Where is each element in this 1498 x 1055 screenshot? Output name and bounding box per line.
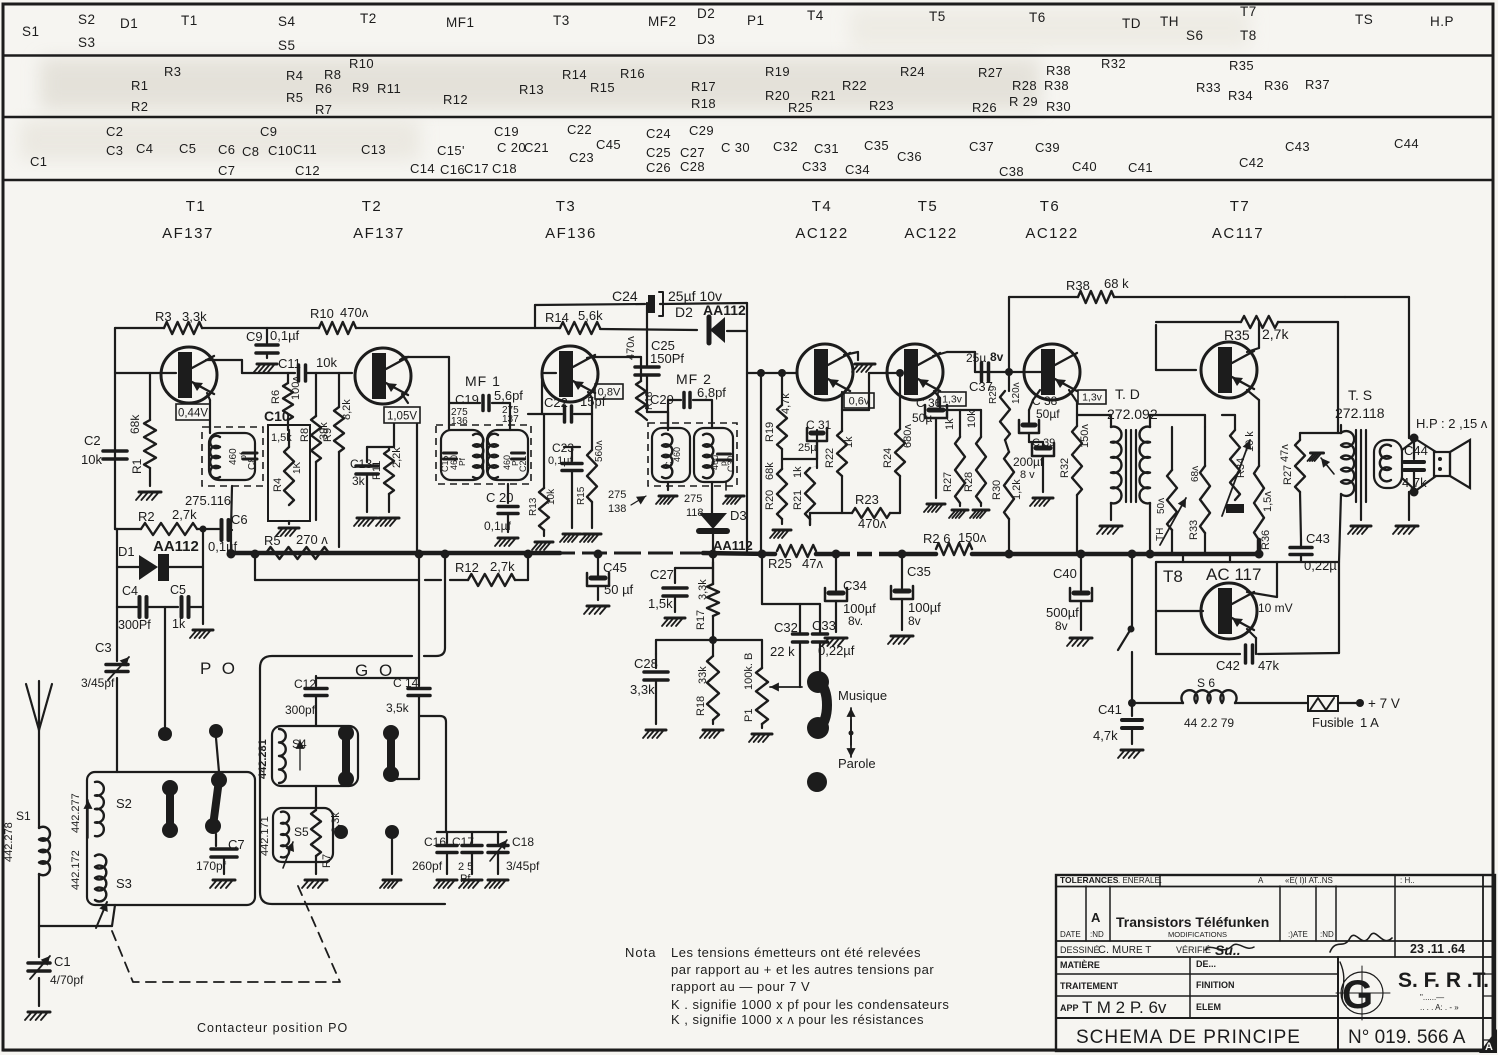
svg-text:R35: R35 xyxy=(1224,327,1250,343)
capacitor C28 3,3k xyxy=(630,654,668,738)
svg-text:T3: T3 xyxy=(553,13,570,28)
svg-text:0,6v: 0,6v xyxy=(849,396,870,408)
svg-text:23 .11 .64: 23 .11 .64 xyxy=(1410,942,1465,956)
title block frame xyxy=(1056,875,1495,1051)
svg-text:R3: R3 xyxy=(155,309,172,324)
wire MF2 secondary bottom xyxy=(712,482,744,516)
switch contact GO-1 xyxy=(338,725,354,787)
svg-text:C35: C35 xyxy=(907,564,931,579)
ground R7 xyxy=(302,880,327,888)
svg-text:H.P: H.P xyxy=(1430,14,1454,29)
svg-text:1,2k: 1,2k xyxy=(1011,479,1023,500)
svg-text:A: A xyxy=(1258,876,1264,885)
wire GO C14 feed xyxy=(418,556,420,686)
svg-text:560ʌ: 560ʌ xyxy=(594,440,605,462)
svg-text:R35: R35 xyxy=(1229,58,1254,73)
svg-text:C19: C19 xyxy=(455,392,479,407)
resistor R14 xyxy=(545,308,603,334)
resistor R21 1k xyxy=(792,466,817,525)
svg-text:C27: C27 xyxy=(680,145,705,160)
svg-text:FINITION: FINITION xyxy=(1196,980,1235,990)
svg-text:G: G xyxy=(1342,973,1373,1017)
resistor R28 10k xyxy=(963,410,989,518)
capacitor C35 100µf 8v xyxy=(888,554,941,644)
svg-text:T6: T6 xyxy=(1029,10,1046,25)
svg-text:R28: R28 xyxy=(963,472,975,492)
svg-text:C5: C5 xyxy=(179,141,196,156)
svg-text:TS: TS xyxy=(1355,12,1373,27)
svg-text:C32: C32 xyxy=(773,139,798,154)
svg-text:R19: R19 xyxy=(765,64,790,79)
svg-text:AF136: AF136 xyxy=(545,225,597,242)
svg-text:0,44V: 0,44V xyxy=(178,408,208,420)
switch contact PO-2 (to C7) xyxy=(205,772,227,834)
svg-text:C1: C1 xyxy=(54,954,71,969)
svg-text:442.278: 442.278 xyxy=(3,822,15,862)
svg-text:S3: S3 xyxy=(116,876,132,891)
svg-text:"......—: "......— xyxy=(1420,993,1444,1002)
svg-text:S1: S1 xyxy=(22,24,40,39)
resistor R7 3,3k xyxy=(311,786,342,874)
svg-text:T2: T2 xyxy=(360,11,377,26)
svg-text:10k: 10k xyxy=(966,410,978,428)
svg-text:5,6pf: 5,6pf xyxy=(494,388,523,403)
loudspeaker H.P 2,15 xyxy=(1416,416,1488,488)
svg-text:H.P : 2 ,15 ʌ: H.P : 2 ,15 ʌ xyxy=(1416,416,1488,431)
svg-text:R2: R2 xyxy=(131,99,148,114)
svg-text:0,1µf: 0,1µf xyxy=(484,519,512,533)
svg-text:470ʌ: 470ʌ xyxy=(625,336,637,360)
svg-text:T5: T5 xyxy=(918,198,939,215)
nota text block xyxy=(625,945,949,1027)
coil L1 xyxy=(209,433,255,480)
svg-text:TD: TD xyxy=(1122,16,1141,31)
svg-text:150ʌ: 150ʌ xyxy=(958,530,987,545)
svg-text:1,5ʌ: 1,5ʌ xyxy=(1262,491,1274,512)
wire T4 base column xyxy=(747,369,797,553)
svg-text:68k: 68k xyxy=(128,414,142,434)
svg-text:T2: T2 xyxy=(362,198,383,215)
resistor R22 1k xyxy=(824,429,855,513)
svg-text:T1: T1 xyxy=(181,13,198,28)
svg-text:2,2k: 2,2k xyxy=(391,447,403,468)
svg-text:T5: T5 xyxy=(929,9,946,24)
wire volume feed xyxy=(675,554,713,640)
capacitor C7 170pf xyxy=(196,834,245,888)
svg-text:C23: C23 xyxy=(552,441,574,455)
switch contact PO-1 xyxy=(162,780,178,838)
svg-text:150Pf: 150Pf xyxy=(650,351,684,366)
svg-text:68k: 68k xyxy=(764,462,776,480)
svg-text:10k: 10k xyxy=(546,488,557,505)
svg-text:1k: 1k xyxy=(843,436,855,448)
svg-text:275: 275 xyxy=(684,493,702,505)
title block texts xyxy=(1060,875,1466,1048)
svg-text:C22: C22 xyxy=(567,122,592,137)
wire C16 row feed tap xyxy=(420,716,446,832)
ground speaker line xyxy=(1393,526,1418,534)
header row: resistor locations xyxy=(131,56,1330,117)
svg-text:S5: S5 xyxy=(278,38,296,53)
svg-text:C33: C33 xyxy=(802,159,827,174)
coil S3 442.172 xyxy=(70,850,132,901)
svg-text:T M 2 P. 6v: T M 2 P. 6v xyxy=(1082,998,1167,1017)
resistor R12 2,7k xyxy=(455,559,515,586)
wire T3 base xyxy=(528,373,556,414)
capacitor C9 0,1µf xyxy=(246,328,300,358)
svg-text:4,7k: 4,7k xyxy=(780,393,792,414)
svg-text:R7: R7 xyxy=(321,854,333,868)
wire T2 emitter column xyxy=(367,394,417,553)
svg-text:AF137: AF137 xyxy=(353,225,405,242)
svg-text:272.118: 272.118 xyxy=(1335,405,1385,421)
wire C16/C17/C18 row xyxy=(437,832,506,843)
svg-text:1k: 1k xyxy=(172,617,186,631)
svg-text:C26: C26 xyxy=(646,160,671,175)
svg-text:S2: S2 xyxy=(78,12,96,27)
MF1 transformer dashed box xyxy=(436,425,531,484)
svg-text:T1: T1 xyxy=(186,198,207,215)
revision triangle A xyxy=(1479,1029,1497,1053)
svg-text:C17: C17 xyxy=(452,835,474,849)
capacitor C11 (10k) xyxy=(278,355,352,381)
resistor R38 68k xyxy=(1009,276,1345,303)
labels T8 AC117 xyxy=(1163,565,1261,586)
wire R27/R28 top xyxy=(940,409,981,411)
svg-text:68ʌ: 68ʌ xyxy=(1190,466,1201,482)
resistor R18 33k xyxy=(695,640,723,738)
svg-text:DE...: DE... xyxy=(1196,959,1216,969)
svg-text:R24: R24 xyxy=(882,448,894,468)
svg-text:C11: C11 xyxy=(278,356,301,371)
svg-text:R1: R1 xyxy=(131,78,148,93)
svg-text:22 k: 22 k xyxy=(770,644,795,659)
svg-text:680ʌ: 680ʌ xyxy=(902,424,914,448)
wire T4 emitter to ground xyxy=(844,352,875,372)
svg-text:1,3v: 1,3v xyxy=(1082,392,1103,404)
svg-text:R2: R2 xyxy=(138,509,155,524)
ground TS core xyxy=(1348,502,1371,534)
capacitor C31 25µ xyxy=(782,418,832,466)
svg-text:C29: C29 xyxy=(650,392,674,407)
svg-text::ND: :ND xyxy=(1090,930,1104,939)
svg-text:C24: C24 xyxy=(646,126,671,141)
svg-text:R25: R25 xyxy=(788,100,813,115)
output transformer T.S 272.118 xyxy=(1335,387,1385,421)
resistor R16 470 xyxy=(625,336,655,420)
svg-text:C25: C25 xyxy=(646,145,671,160)
svg-text:R36: R36 xyxy=(1260,530,1272,550)
svg-text:47k: 47k xyxy=(1258,658,1279,673)
svg-text:par rapport au + et les: par rapport au + et les autres tensions … xyxy=(671,962,934,977)
svg-text:2 5: 2 5 xyxy=(458,861,473,873)
svg-text:MF2: MF2 xyxy=(648,14,677,29)
svg-text:A: A xyxy=(1485,1041,1493,1053)
resistor R20 68k xyxy=(764,449,791,538)
svg-text:C 31: C 31 xyxy=(806,418,832,432)
svg-text:R18: R18 xyxy=(695,696,707,716)
svg-text:D2: D2 xyxy=(675,304,693,320)
svg-text:C7: C7 xyxy=(228,837,245,852)
svg-text:C13: C13 xyxy=(350,457,372,471)
capacitor C12 300pf xyxy=(285,676,327,726)
capacitor C2 (10k) xyxy=(81,433,127,467)
svg-text:Contacteur position PO: Contacteur position PO xyxy=(197,1021,348,1035)
svg-text:T4: T4 xyxy=(812,198,833,215)
svg-text:R20: R20 xyxy=(764,490,776,510)
svg-text:C33: C33 xyxy=(812,618,836,633)
svg-text:R15: R15 xyxy=(590,80,615,95)
resistor R9 8,2k xyxy=(322,373,353,547)
svg-text:50µ: 50µ xyxy=(912,411,932,425)
svg-text:C3: C3 xyxy=(106,143,123,158)
svg-text:«E( I)I AT..NS: «E( I)I AT..NS xyxy=(1285,876,1333,885)
potentiometer R34 10k xyxy=(1222,415,1256,516)
svg-text:500µf: 500µf xyxy=(1046,605,1079,620)
svg-text:270 ʌ: 270 ʌ xyxy=(296,532,328,547)
svg-text:442.172: 442.172 xyxy=(70,850,82,890)
svg-text:25µf 10v: 25µf 10v xyxy=(668,288,722,304)
svg-text:260pf: 260pf xyxy=(412,859,443,873)
svg-text:Les tensions émetteurs ont: Les tensions émetteurs ont été relevées xyxy=(671,945,921,960)
transistor T2 AF137 xyxy=(355,348,411,404)
C10 box with R4 1,5k xyxy=(264,408,310,521)
svg-text:S2: S2 xyxy=(116,796,132,811)
svg-text:25µ: 25µ xyxy=(966,351,986,365)
SFRT logo xyxy=(1336,966,1489,1020)
wire TS primary bottom to bus xyxy=(1339,494,1341,562)
capacitor C44 4,7k xyxy=(1402,434,1428,497)
svg-text:MF 1: MF 1 xyxy=(465,373,501,389)
coil S2 442.277 xyxy=(70,782,132,838)
wire C24 bypass loop xyxy=(535,303,747,331)
wire T6 collector to TD xyxy=(1069,390,1111,427)
svg-text:TH: TH xyxy=(1155,528,1166,541)
svg-text:R22: R22 xyxy=(842,78,867,93)
capacitor C16 260pf xyxy=(412,835,457,888)
fuse Fusible 1A xyxy=(1308,696,1379,730)
svg-text:R28: R28 xyxy=(1012,78,1037,93)
wire T5 emitter xyxy=(934,391,940,404)
svg-text:R16: R16 xyxy=(620,66,645,81)
svg-text:S1: S1 xyxy=(16,809,31,823)
coil S4 442.281 box xyxy=(257,726,358,786)
MF1 secondary can xyxy=(487,430,528,480)
svg-text:R29: R29 xyxy=(988,385,999,404)
svg-text:+ 7 V: + 7 V xyxy=(1368,696,1400,711)
svg-text:C7: C7 xyxy=(218,163,235,178)
wire TD secondary xyxy=(1150,415,1205,553)
svg-text:TOLERANCES: TOLERANCES xyxy=(1060,875,1119,885)
wire T7 emitter xyxy=(1247,390,1259,452)
svg-text:R3: R3 xyxy=(164,64,181,79)
svg-text:C3: C3 xyxy=(95,640,112,655)
switch spare contacts xyxy=(334,825,401,888)
svg-text:C8: C8 xyxy=(247,457,258,470)
svg-text:C40: C40 xyxy=(1072,159,1097,174)
resistor R2 2,7k xyxy=(138,507,197,535)
svg-text:3,3k: 3,3k xyxy=(697,579,709,600)
wire AVC row under bus xyxy=(255,556,528,580)
wire T3 emitter xyxy=(588,392,592,414)
tone switch Musique/Parole xyxy=(807,671,887,739)
svg-text:C14: C14 xyxy=(410,161,435,176)
transistor T6 AC122 xyxy=(1024,344,1080,400)
svg-text:AC117: AC117 xyxy=(1212,225,1264,242)
capacitor C42 47k xyxy=(1216,645,1279,673)
contacteur dashed linkage xyxy=(112,886,340,982)
label 0,6v measure box xyxy=(844,393,874,408)
svg-text:R11: R11 xyxy=(371,461,383,480)
svg-text:R27: R27 xyxy=(942,472,954,492)
svg-text:1k: 1k xyxy=(944,418,956,430)
svg-text:R32: R32 xyxy=(1101,56,1126,71)
capacitor C5 1k xyxy=(147,583,203,631)
capacitor C39 200µf 8v xyxy=(1013,437,1055,506)
ground C45 xyxy=(584,606,609,614)
svg-text:R19: R19 xyxy=(764,422,776,442)
ground C1 xyxy=(25,1012,50,1020)
svg-text:C37: C37 xyxy=(969,139,994,154)
svg-text:R10: R10 xyxy=(310,306,334,321)
parts-location header band dividers xyxy=(3,56,1493,181)
resistor R10 xyxy=(310,305,369,334)
svg-text:T. D: T. D xyxy=(1115,386,1140,402)
svg-text:R14: R14 xyxy=(562,67,587,82)
svg-text:C11: C11 xyxy=(293,142,317,157)
svg-text:150ʌ: 150ʌ xyxy=(1079,424,1091,448)
svg-text:C16: C16 xyxy=(440,162,465,177)
svg-text:T7: T7 xyxy=(1230,198,1251,215)
svg-text:R4: R4 xyxy=(272,478,284,492)
svg-text:MATIÈRE: MATIÈRE xyxy=(1060,960,1100,970)
svg-text:R32: R32 xyxy=(1059,458,1071,478)
antenna xyxy=(26,681,52,730)
transistor T7 AC117 xyxy=(1201,342,1257,398)
svg-text:C42: C42 xyxy=(1239,155,1264,170)
ground R11 xyxy=(376,518,399,526)
wire antenna column xyxy=(38,730,40,1006)
capacitor C41 4,7k xyxy=(1093,699,1143,758)
svg-text:R22: R22 xyxy=(824,448,836,468)
ground C23 xyxy=(560,534,581,542)
small coupling parts above T8 xyxy=(1183,554,1230,562)
capacitor C19 5,6pf xyxy=(449,388,523,430)
svg-text:P O: P O xyxy=(200,659,238,678)
svg-text:1k: 1k xyxy=(792,466,804,478)
bus junction dots xyxy=(227,550,1264,559)
svg-text:C24: C24 xyxy=(612,288,638,304)
svg-text::)ATE: :)ATE xyxy=(1288,930,1308,939)
svg-text:5,6k: 5,6k xyxy=(578,308,603,323)
resistor R4 1,5k xyxy=(271,430,303,505)
svg-text:R25: R25 xyxy=(768,556,792,571)
svg-text:C4: C4 xyxy=(136,141,153,156)
svg-text:C16: C16 xyxy=(424,835,446,849)
ground R15 xyxy=(580,534,601,542)
wire T7 base xyxy=(1156,325,1196,370)
resistor R5 270 xyxy=(264,532,329,559)
svg-text:C35: C35 xyxy=(864,138,889,153)
svg-text:R9: R9 xyxy=(322,428,334,442)
svg-text:S4: S4 xyxy=(278,14,296,29)
P1 wiper arrow xyxy=(770,682,802,691)
svg-text:47ʌ: 47ʌ xyxy=(1279,444,1291,462)
svg-text:R14: R14 xyxy=(545,310,569,325)
svg-text:R13: R13 xyxy=(519,82,544,97)
svg-text:50ʌ: 50ʌ xyxy=(1156,498,1167,514)
svg-text:C39: C39 xyxy=(1035,140,1060,155)
svg-text:C42: C42 xyxy=(1216,658,1240,673)
svg-text:R11: R11 xyxy=(377,81,401,96)
transistor T3 AF136 xyxy=(542,346,598,402)
resistor R29 120 xyxy=(988,372,1022,440)
MF2 transformer dashed box xyxy=(648,423,737,486)
diode D1 AA112 xyxy=(117,538,203,581)
svg-text:C10: C10 xyxy=(264,408,290,424)
svg-text:0,22µ: 0,22µ xyxy=(1304,558,1337,573)
svg-text:MF1: MF1 xyxy=(446,15,475,30)
svg-text:2,7k: 2,7k xyxy=(490,559,515,574)
svg-text:C1: C1 xyxy=(30,154,47,169)
svg-text:44 2.2 79: 44 2.2 79 xyxy=(1184,716,1234,730)
capacitor C27 1,5k xyxy=(648,567,687,626)
capacitor C34 100µf 8v xyxy=(822,554,876,646)
svg-text:4,7k: 4,7k xyxy=(1093,728,1118,743)
svg-text:R27: R27 xyxy=(1282,465,1294,485)
thermistor TH 50 xyxy=(1155,427,1186,553)
resistor R24 680 xyxy=(882,369,914,513)
capacitor C8 xyxy=(243,453,258,470)
svg-text:C2: C2 xyxy=(106,124,123,139)
svg-text:6,8pf: 6,8pf xyxy=(697,385,726,400)
transistor T8 AC117 xyxy=(1201,583,1257,639)
wire T4 collector down xyxy=(842,373,902,429)
svg-text:Nota: Nota xyxy=(625,945,656,960)
svg-text:R30: R30 xyxy=(991,480,1003,500)
svg-text:R9: R9 xyxy=(352,80,369,95)
svg-text:R18: R18 xyxy=(691,96,716,111)
capacitor C4 300Pf xyxy=(117,584,151,632)
svg-text:R36: R36 xyxy=(1264,78,1289,93)
svg-text:442.277: 442.277 xyxy=(70,793,82,833)
header row: capacitor locations xyxy=(30,122,1419,179)
svg-text:C8: C8 xyxy=(242,144,259,159)
svg-text:SCHEMA DE PRINCIPE: SCHEMA DE PRINCIPE xyxy=(1076,1027,1301,1048)
svg-text:1,3v: 1,3v xyxy=(942,394,963,406)
wire MF2 primary bottom ground xyxy=(656,482,677,504)
potentiometer P1 100k.B xyxy=(743,640,772,742)
svg-text:T8: T8 xyxy=(1240,28,1257,43)
svg-text:C38: C38 xyxy=(999,164,1024,179)
svg-text:33k: 33k xyxy=(697,666,709,684)
label +7V xyxy=(1368,696,1400,711)
svg-text:C 36: C 36 xyxy=(916,396,942,410)
svg-text:275.116: 275.116 xyxy=(185,493,231,508)
svg-text:C43: C43 xyxy=(1285,139,1310,154)
svg-text:R6: R6 xyxy=(315,81,332,96)
svg-text:R33: R33 xyxy=(1196,80,1221,95)
svg-text:170pf: 170pf xyxy=(196,859,227,873)
label GO xyxy=(355,661,395,680)
svg-text:R 29: R 29 xyxy=(1009,94,1038,109)
resistor R27 47 xyxy=(1279,433,1305,540)
svg-text:D1: D1 xyxy=(120,16,138,31)
svg-text:C10: C10 xyxy=(268,143,293,158)
wire on/off switch xyxy=(1118,556,1135,700)
label 1,05V measure box xyxy=(384,407,420,423)
ground C5 xyxy=(190,630,213,638)
